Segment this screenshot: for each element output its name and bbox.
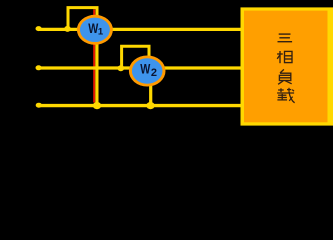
wire: W2 voltage-coil loop: [122, 46, 149, 68]
load label 载: [277, 88, 295, 103]
three-phase load box: [241, 7, 333, 125]
wire: W1 drop to phase C: [95, 40, 98, 105]
node: phase B left terminal: [36, 65, 42, 70]
load label 三: [278, 34, 293, 42]
wire: W2 drop to phase C: [149, 80, 152, 105]
svg-text:W: W: [140, 61, 150, 77]
node: phase A left terminal: [36, 26, 42, 31]
wire: phase B line (middle): [38, 66, 242, 69]
wattmeter W2: [129, 56, 166, 87]
node: W1 voltage-coil tap on phase A: [64, 26, 71, 32]
load label 负: [278, 69, 292, 84]
wire: phase A line (top): [38, 28, 242, 31]
svg-text:2: 2: [151, 67, 157, 79]
node: phase C left terminal: [36, 103, 42, 108]
wire: W1 red voltage lead: [93, 9, 95, 102]
wire: W1 voltage-coil loop: [68, 8, 97, 29]
node: W2 voltage-coil tap on phase B: [118, 65, 125, 71]
node: W1 connection on phase C: [93, 102, 101, 109]
wire: phase C line (bottom): [38, 104, 242, 107]
node: W2 connection on phase C: [146, 102, 154, 109]
svg-text:1: 1: [98, 27, 104, 38]
wattmeter W1: [77, 15, 113, 45]
load label 相: [277, 51, 292, 63]
